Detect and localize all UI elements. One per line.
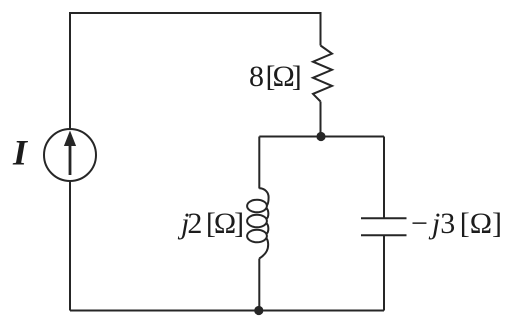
svg-text:−j3 [Ω]: −j3 [Ω] — [411, 207, 502, 240]
svg-text:I: I — [12, 133, 29, 173]
svg-text:j2 [Ω]: j2 [Ω] — [177, 207, 242, 240]
svg-text:8 [Ω]: 8 [Ω] — [249, 60, 300, 93]
